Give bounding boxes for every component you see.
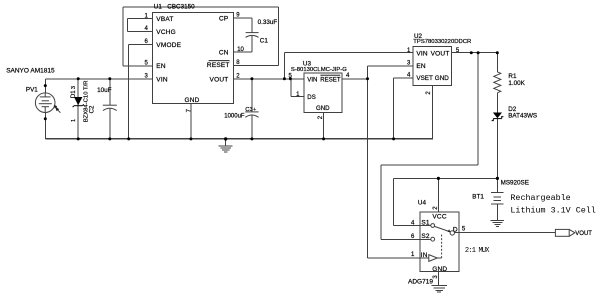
svg-text:VMODE: VMODE: [156, 42, 181, 49]
wire D1 vertical: [77, 79, 79, 139]
wire U2 VOUT pin 5: [452, 52, 498, 54]
ground symbol at U4: [431, 286, 446, 293]
node dot D1 anode at VIN wire: [77, 77, 80, 80]
wire U1 GND pin 7 to ground rail: [190, 104, 192, 139]
wire battery net horizontal: [393, 177, 497, 179]
wire R1 top lead: [496, 53, 498, 72]
svg-text:10: 10: [237, 47, 244, 53]
svg-text:0.33uF: 0.33uF: [258, 19, 278, 26]
wire C3 top lead: [251, 79, 253, 112]
svg-text:SANYO AM1815: SANYO AM1815: [6, 68, 55, 75]
svg-text:VIN: VIN: [156, 76, 168, 83]
svg-text:S1: S1: [421, 220, 430, 227]
wire U1 VCHG pin 4 stub: [128, 30, 153, 32]
node dot C3 at VOUT wire: [250, 77, 253, 80]
wire VIN net horizontal (PV1/D1/C2 to U1 VIN pin 3): [45, 78, 152, 80]
capacitor C3 1000uF: [245, 112, 258, 117]
node dot U3 GND at rail: [322, 137, 325, 140]
wire RESET net vertical to U4 IN: [367, 66, 369, 258]
wire VSET tie to ground rail: [393, 78, 395, 139]
svg-text:VOUT: VOUT: [575, 231, 592, 237]
switch common contact circle: [450, 231, 454, 235]
IC U3 S-80130CLMC-JIP-G body: [304, 73, 342, 112]
node dot VOUT to S2 branch: [477, 51, 480, 54]
schottky diode D2: [492, 113, 504, 121]
wire DS tie to VIN: [290, 79, 292, 97]
node dot VMODE-EN tie at ground rail: [127, 137, 130, 140]
svg-text:1: 1: [71, 119, 77, 122]
PV1 pin dot top: [44, 84, 47, 87]
wire battery net down to S1: [392, 178, 394, 225]
svg-text:D: D: [453, 226, 458, 233]
node dot VOUT to R1: [496, 51, 499, 54]
svg-text:PV1: PV1: [26, 87, 38, 94]
PV1 light arrows: [54, 106, 60, 113]
node dot U1 GND pin at rail: [189, 137, 192, 140]
buffer triangle on IN: [429, 255, 438, 262]
wire U1 VBAT pin 1 stub: [128, 18, 153, 20]
wire U4 GND pin 3 to ground: [438, 272, 440, 286]
svg-text:1.00K: 1.00K: [508, 80, 525, 87]
wire C2 bottom lead: [109, 108, 111, 138]
svg-text:BZX84-C10 T/R: BZX84-C10 T/R: [84, 81, 90, 123]
wire U1 VMODE pin 6 stub: [129, 43, 153, 45]
svg-text:VCHG: VCHG: [156, 29, 176, 36]
node dot VOUT branch junction: [283, 77, 286, 80]
svg-text:2:1 MUX: 2:1 MUX: [465, 247, 490, 255]
svg-text:VIN: VIN: [307, 76, 317, 83]
svg-text:BT1: BT1: [472, 194, 484, 201]
node dot C2 at ground rail: [108, 137, 111, 140]
node dot C3 at ground rail: [250, 137, 253, 140]
capacitor C2 10uF: [103, 105, 117, 110]
svg-text:Lithium 3.1V Cell: Lithium 3.1V Cell: [510, 206, 595, 216]
U1 RESET overline: [209, 60, 230, 62]
svg-text:D1: D1: [70, 90, 77, 98]
svg-text:VBAT: VBAT: [156, 16, 173, 23]
wire U2 EN pin 3: [368, 65, 414, 67]
wire C1 top lead: [251, 18, 253, 33]
wire U4 S2 pin 6: [381, 238, 431, 240]
switch S1 contact circle: [431, 224, 435, 228]
wire U2 VSET pin 4 stub: [394, 77, 414, 79]
wire U1 VOUT pin 2 to U3 VIN pin 5: [234, 78, 304, 80]
IC U1 CBC3150 body: [152, 13, 233, 104]
wire U4 D pin 5 to VOUT connector: [455, 232, 556, 234]
svg-text:CBC3150: CBC3150: [167, 3, 195, 10]
svg-text:C2: C2: [89, 105, 96, 113]
wire C3 bottom lead: [251, 115, 253, 139]
svg-text:VOUT: VOUT: [431, 50, 450, 57]
svg-text:VOUT: VOUT: [210, 76, 229, 83]
svg-text:TPS780330220DDCR: TPS780330220DDCR: [413, 39, 471, 45]
wire U4 S1 pin 4: [393, 225, 430, 227]
wire BT1 top lead: [496, 178, 498, 192]
svg-text:IN: IN: [421, 252, 428, 259]
svg-text:GND: GND: [185, 97, 200, 104]
node dot U4 VCC branch: [437, 177, 440, 180]
svg-text:U4: U4: [418, 199, 427, 206]
svg-text:VIN: VIN: [416, 50, 428, 57]
svg-text:VCC: VCC: [432, 213, 446, 220]
wire U1 CP pin 9 to C1: [234, 17, 253, 19]
wire PV1 top lead: [44, 79, 46, 93]
buffer output to switch control: [437, 257, 441, 259]
wire to U2 VIN pin 1: [284, 52, 413, 54]
wire U1 CN pin 10 to C1: [234, 51, 253, 53]
wire EN-RESET loop right vertical: [278, 7, 280, 65]
svg-text:GND: GND: [435, 75, 449, 82]
wire PV1 bottom lead: [44, 113, 46, 139]
wire regulated VOUT branch down: [477, 53, 479, 165]
wire VMODE-EN tie down to ground rail: [128, 44, 130, 139]
IC U4 ADG719 body: [420, 212, 459, 272]
svg-text:EN: EN: [416, 63, 426, 70]
node dot U3 RESET to U2 EN junction: [366, 77, 369, 80]
wire VOUT branch up to U2 VIN: [283, 53, 285, 79]
wire U4 VCC pin 2: [437, 178, 439, 212]
wire U1 RESET pin 8: [234, 64, 279, 66]
wire U4 IN pin 1: [368, 257, 429, 259]
node dot D1 at ground rail: [77, 137, 80, 140]
capacitor C1 0.33uF: [246, 33, 259, 38]
wire ground rail: [45, 138, 432, 140]
VOUT output connector: [555, 229, 575, 236]
wire U3 GND pin 2 to rail: [323, 112, 325, 139]
wire U3 DS pin 1 stub: [291, 96, 304, 98]
wire EN loop left vertical: [122, 7, 124, 66]
PV1 pin dot bottom: [44, 117, 47, 120]
svg-text:EN: EN: [156, 63, 166, 70]
ground symbol at battery: [491, 220, 505, 226]
svg-text:10uF: 10uF: [97, 87, 112, 94]
ground symbol at main rail: [219, 146, 233, 152]
svg-text:GND: GND: [316, 105, 330, 112]
node dot ground symbol at rail: [224, 137, 227, 140]
wire U2 GND pin 2 riser from ground rail: [432, 86, 434, 140]
svg-text:RESET: RESET: [207, 62, 230, 69]
switch S2 contact circle: [431, 237, 435, 241]
svg-text:CP: CP: [219, 15, 228, 22]
wire regulated VOUT across to S2 column: [381, 164, 478, 166]
node dot MS920SE battery junction: [496, 177, 499, 180]
svg-text:3: 3: [71, 86, 77, 89]
svg-text:U1: U1: [154, 3, 163, 10]
wire S2 column vertical: [380, 165, 382, 239]
wire C1 bottom lead: [251, 36, 253, 52]
node dot VSET at ground rail: [392, 137, 395, 140]
solar cell PV1: [35, 93, 55, 113]
resistor R1: [494, 72, 501, 93]
IC U2 TPS780330220DDCR body: [413, 47, 451, 86]
node dot U3 VIN-DS junction: [289, 77, 292, 80]
wire U3 RESET pin 4: [342, 78, 367, 80]
svg-text:VSET: VSET: [416, 75, 433, 82]
svg-text:BAT43WS: BAT43WS: [508, 113, 537, 120]
svg-text:DS: DS: [307, 94, 315, 101]
wire C2 top lead: [109, 79, 111, 105]
switch arm arrowhead: [448, 229, 451, 232]
svg-text:MS920SE: MS920SE: [501, 180, 529, 187]
svg-text:S-80130CLMC-JIP-G: S-80130CLMC-JIP-G: [291, 67, 347, 73]
svg-text:GND: GND: [432, 266, 447, 273]
battery BT1: [491, 192, 504, 204]
svg-text:ADG719: ADG719: [408, 278, 433, 285]
node dot U2 VOUT pin end: [470, 51, 473, 54]
wire U1 EN pin 5 stub: [123, 65, 152, 67]
wire R1 bottom lead to D2: [496, 93, 498, 113]
dashed control line: [441, 235, 443, 259]
svg-text:C3: C3: [245, 107, 252, 113]
U3 RESET overline: [320, 74, 340, 76]
svg-text:RESET: RESET: [320, 76, 341, 83]
wire VBAT-VCHG tie loop: [127, 19, 129, 32]
svg-text:S2: S2: [421, 233, 430, 240]
wire ground symbol stem at rail: [225, 139, 227, 146]
svg-text:CN: CN: [219, 50, 229, 57]
svg-text:1000uF: 1000uF: [224, 113, 245, 119]
node dot C2 at VIN wire: [108, 77, 111, 80]
svg-text:C1: C1: [260, 37, 269, 44]
wire D2 cathode to battery node: [496, 119, 498, 179]
svg-text:Rechargeable: Rechargeable: [510, 193, 570, 203]
wire BT1 bottom lead to ground: [496, 204, 498, 220]
switch arm: [435, 226, 451, 232]
svg-text:+: +: [253, 107, 256, 113]
wire EN-RESET loop top: [123, 6, 278, 8]
zener diode D1: [73, 97, 84, 107]
